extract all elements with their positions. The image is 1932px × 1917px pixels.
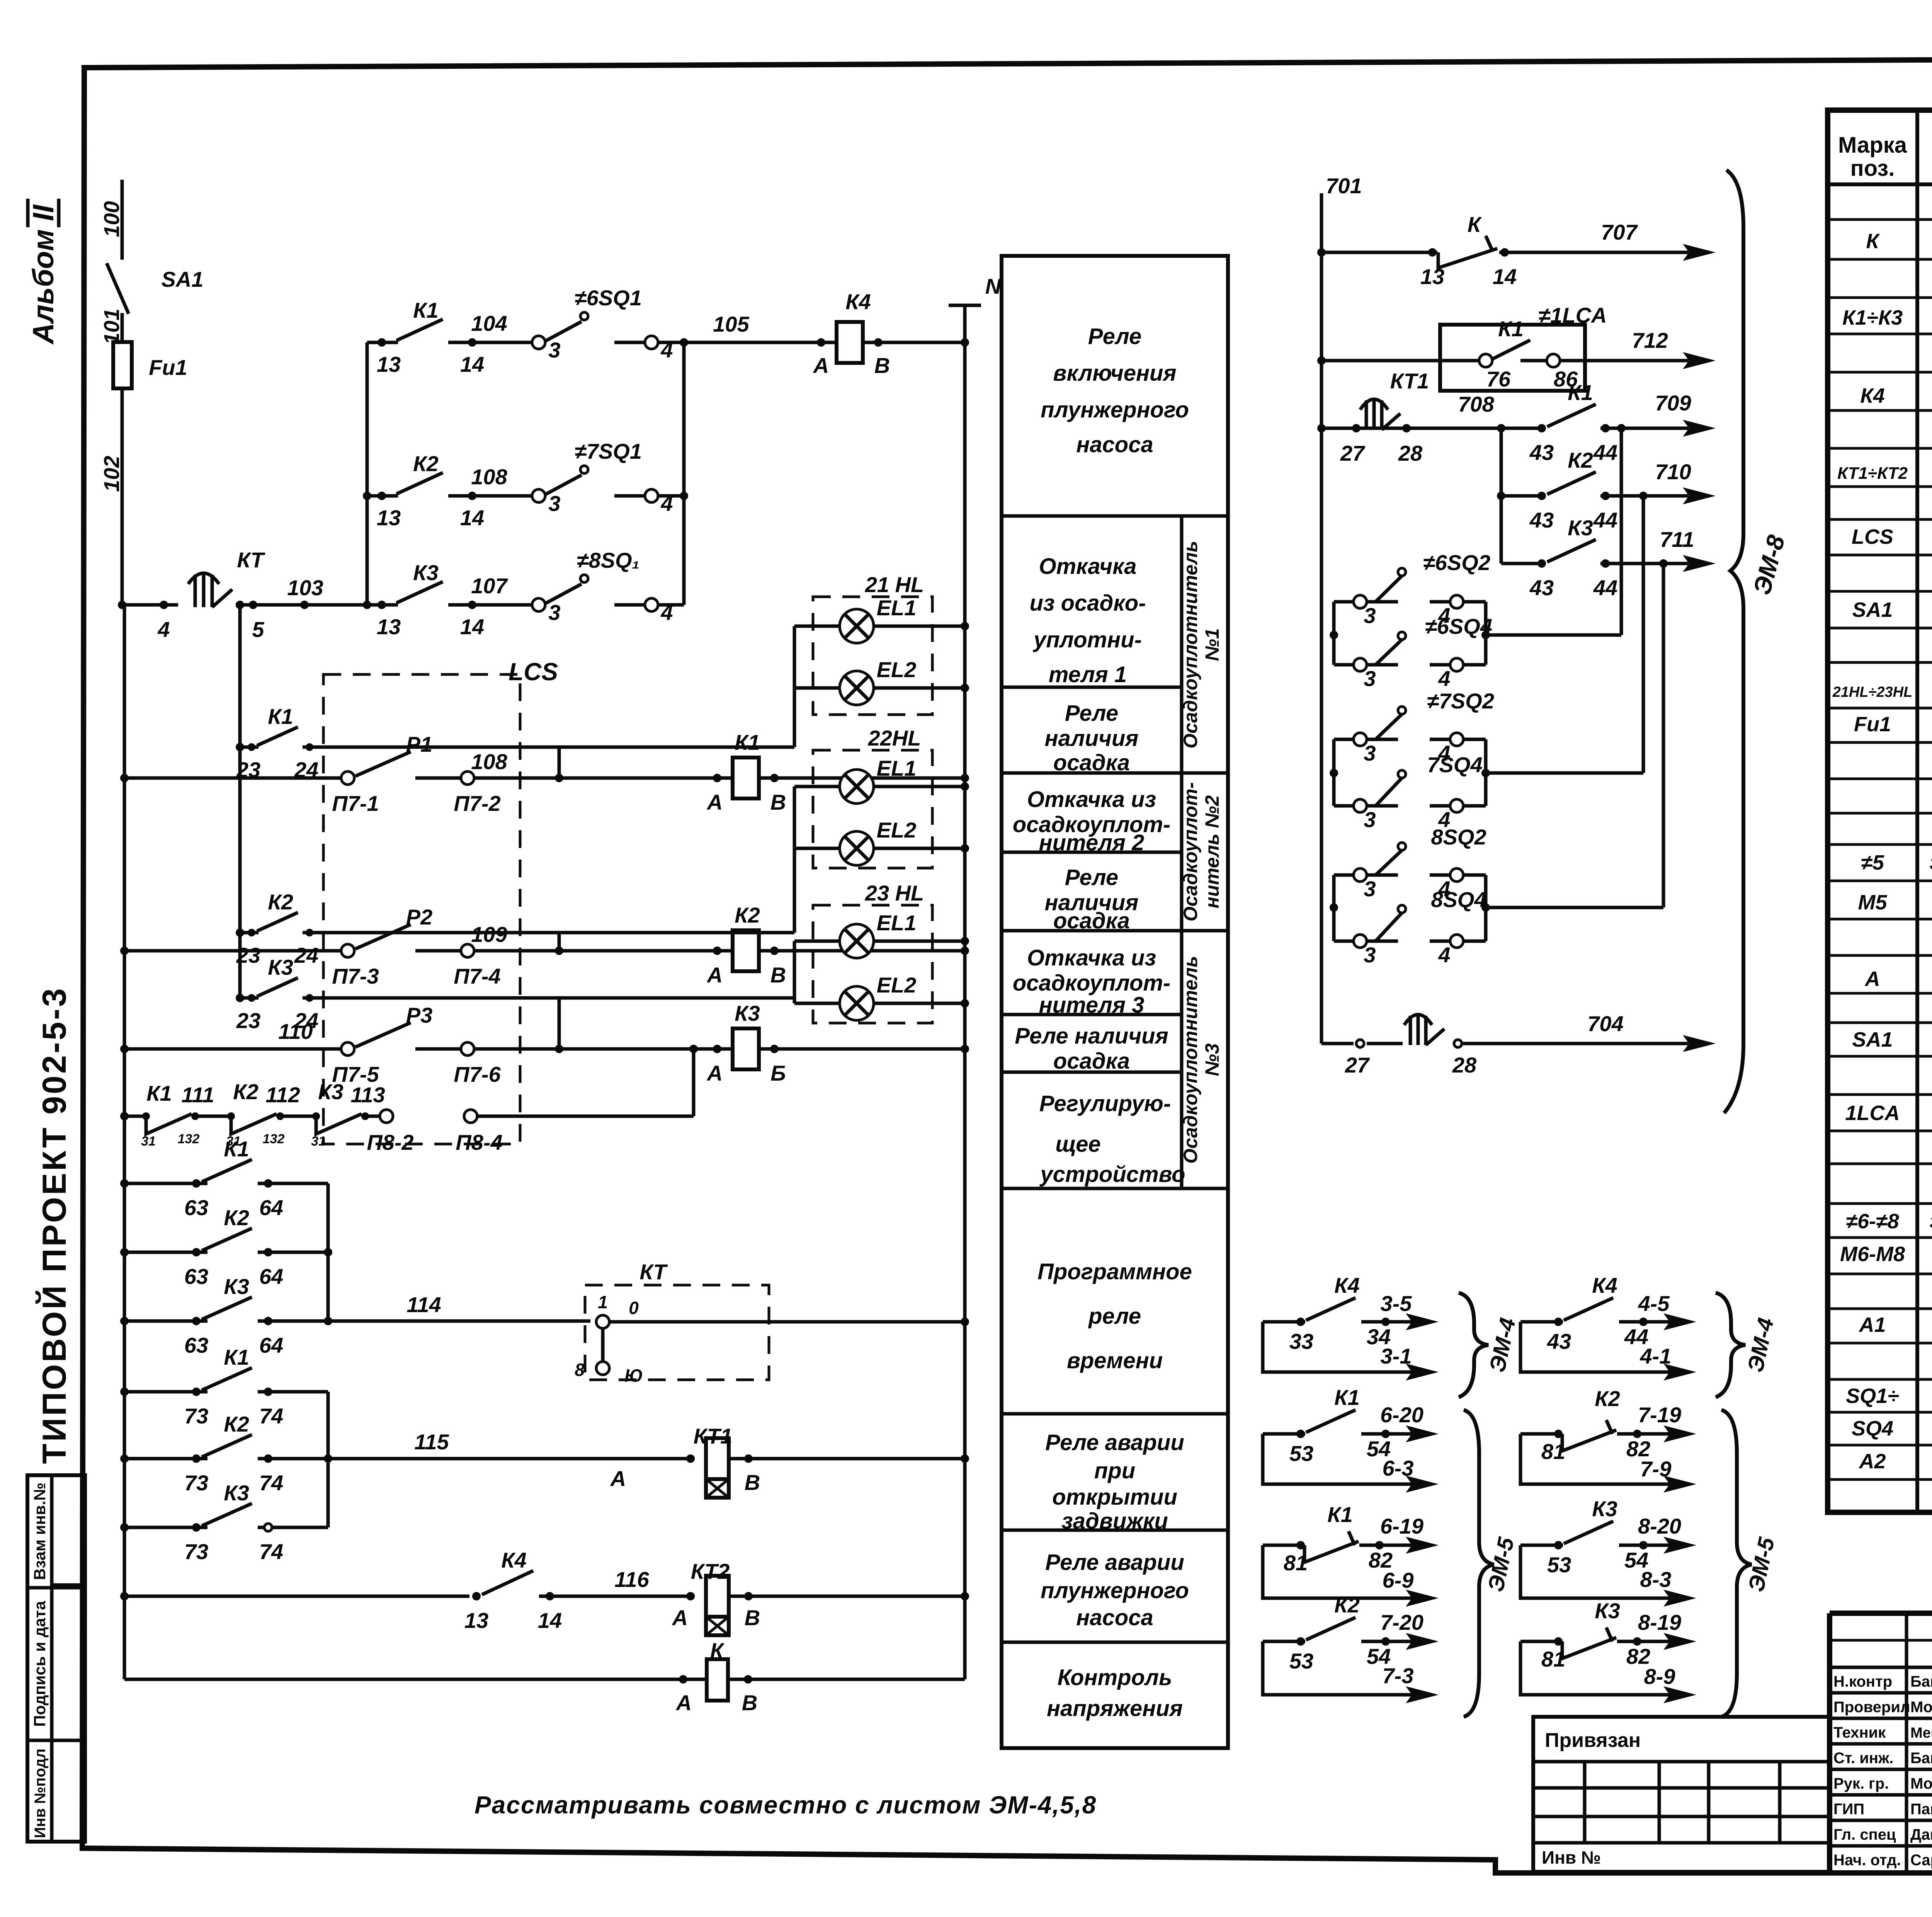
svg-text:701: 701 [1326, 174, 1362, 198]
wire bus 701 [1320, 193, 1323, 1044]
contact K1 23-24 [236, 704, 794, 782]
svg-text:8SQ2: 8SQ2 [1431, 825, 1486, 849]
svg-text:Саркисьян: Саркисьян [1910, 1852, 1932, 1869]
svg-text:14: 14 [460, 615, 484, 639]
svg-text:К2: К2 [1334, 1593, 1360, 1617]
contact P3 (П7-5 / П7-6) [341, 1042, 354, 1056]
wire 110 [124, 1047, 341, 1051]
svg-text:открытии: открытии [1052, 1485, 1177, 1510]
svg-text:при: при [1094, 1458, 1135, 1483]
svg-text:63: 63 [184, 1195, 208, 1220]
arrow 710 [1683, 487, 1716, 504]
svg-text:7-3: 7-3 [1383, 1663, 1414, 1688]
svg-text:8SQ4: 8SQ4 [1431, 887, 1486, 912]
svg-text:110: 110 [278, 1019, 313, 1044]
wire bus B2 [238, 605, 242, 998]
svg-text:≠7SQ2: ≠7SQ2 [1427, 689, 1494, 713]
svg-text:Откачка: Откачка [1039, 554, 1136, 579]
svg-text:114: 114 [406, 1292, 441, 1317]
svg-text:КТ2: КТ2 [691, 1559, 730, 1583]
svg-text:112: 112 [265, 1083, 300, 1107]
wire lamp feed [697, 931, 794, 935]
table mark column entries [1832, 230, 1913, 1473]
contact K3 13-14 [396, 582, 443, 603]
svg-text:Мосеенко: Мосеенко [1910, 1775, 1932, 1792]
svg-text:7-19: 7-19 [1638, 1403, 1681, 1427]
lamp EL1 [794, 940, 840, 943]
svg-text:П7-6: П7-6 [454, 1062, 501, 1086]
svg-text:В: В [770, 790, 786, 814]
wire 116 [124, 1595, 469, 1598]
cell: Реле аварии плунжерного насоса [1041, 1550, 1189, 1630]
svg-text:В: В [770, 963, 786, 987]
contact K1 63-64 [120, 1137, 328, 1220]
wire 100 [121, 180, 124, 260]
svg-text:Реле наличия: Реле наличия [1015, 1023, 1168, 1049]
cell: Откачка из осадкоуплотнителя 2 [1013, 787, 1171, 855]
svg-text:3: 3 [1364, 603, 1376, 628]
svg-text:43: 43 [1529, 440, 1554, 465]
svg-text:А: А [1864, 967, 1880, 991]
contact P2 (П7-3 / П7-4) [341, 944, 354, 957]
svg-text:711: 711 [1660, 527, 1694, 552]
rung 707 : contact K 13-14 [1321, 251, 1437, 254]
svg-text:31: 31 [311, 1134, 326, 1149]
svg-text:SA1: SA1 [1852, 598, 1893, 621]
arrow 712 [1683, 352, 1716, 369]
svg-text:704: 704 [1587, 1011, 1623, 1036]
contact K2 63-64 [120, 1205, 332, 1289]
contact K3 23-24 [236, 955, 794, 1033]
brace ЭМ-5 (right) [1721, 1410, 1752, 1717]
svg-text:А: А [813, 353, 829, 378]
table headers [1838, 133, 1932, 181]
svg-text:А: А [672, 1605, 688, 1630]
svg-text:К2: К2 [224, 1205, 249, 1230]
svg-text:107: 107 [471, 574, 508, 598]
svg-text:К1: К1 [268, 704, 293, 729]
svg-text:4-5: 4-5 [1638, 1291, 1670, 1316]
svg-text:115: 115 [414, 1430, 449, 1454]
project label: ТИПОВОЙ ПРОЕКТ 902-5-3 (rotated) [36, 986, 73, 1464]
svg-text:707: 707 [1601, 220, 1638, 244]
svg-text:7-20: 7-20 [1380, 1610, 1423, 1634]
svg-text:101: 101 [99, 308, 124, 344]
svg-text:23: 23 [236, 943, 260, 967]
row K2 43-44 (wire 710) [1501, 494, 1540, 498]
arrow 709 [1683, 420, 1716, 437]
svg-text:44: 44 [1593, 508, 1617, 532]
lamp EL1 [794, 625, 840, 628]
svg-text:43: 43 [1547, 1329, 1571, 1353]
timed contact KT [188, 573, 232, 607]
svg-text:Программное: Программное [1037, 1259, 1192, 1284]
svg-text:116: 116 [614, 1567, 649, 1592]
svg-text:реле: реле [1088, 1304, 1141, 1329]
contact group K1 81-82 breaker (to ЭМ-5) [1263, 1502, 1439, 1607]
svg-text:27: 27 [1340, 441, 1366, 465]
svg-text:14: 14 [1493, 264, 1517, 289]
svg-text:≠6SQ1: ≠6SQ1 [575, 286, 642, 310]
cell: Откачка из осадкоуплотнителя 1 [1029, 554, 1146, 687]
svg-text:Привязан: Привязан [1545, 1729, 1641, 1752]
svg-text:К1: К1 [1334, 1385, 1360, 1410]
svg-text:8-20: 8-20 [1638, 1514, 1681, 1538]
wire 115 to KT1 [328, 1457, 695, 1461]
svg-text:43: 43 [1529, 575, 1554, 600]
svg-text:708: 708 [1458, 392, 1494, 416]
wire drop from K1 stub to rung 108 [558, 747, 561, 778]
bracket ЭМ-8 [1724, 170, 1743, 1113]
svg-text:64: 64 [259, 1195, 283, 1220]
wire 114 [328, 1319, 590, 1323]
svg-text:31: 31 [141, 1134, 156, 1149]
svg-text:Р3: Р3 [406, 1003, 433, 1027]
svg-text:LCS: LCS [1852, 525, 1893, 548]
svg-text:К1: К1 [224, 1137, 249, 1161]
svg-text:44: 44 [1593, 440, 1617, 465]
contact group K3 53-54 (to ЭМ-5) [1520, 1496, 1696, 1607]
wire riser to rung 110 [692, 1049, 696, 1116]
svg-text:103: 103 [287, 575, 323, 600]
svg-text:Гл. спец: Гл. спец [1833, 1826, 1896, 1843]
svg-text:А: А [706, 963, 723, 987]
svg-text:Павлова: Павлова [1910, 1801, 1932, 1818]
svg-text:В: В [742, 1691, 757, 1715]
svg-text:Реле: Реле [1065, 865, 1118, 890]
svg-text:22HL: 22HL [868, 726, 921, 750]
row K3 43-44 (wire 711) [1501, 562, 1540, 565]
wire risers from SQ4 interconnects [1620, 428, 1623, 635]
program timer KT dashed box [585, 1285, 769, 1380]
svg-text:76: 76 [1486, 367, 1511, 391]
svg-text:Р2: Р2 [406, 905, 433, 929]
svg-text:3: 3 [1364, 741, 1376, 765]
lamp EL1 [794, 785, 840, 788]
rung 712 : contact K1 76-86 [1321, 359, 1479, 363]
svg-text:Откачка из: Откачка из [1027, 945, 1156, 970]
contact K2 31-32 [195, 1112, 284, 1149]
approval rows [1833, 1673, 1932, 1869]
level switch box ≠1LCA [1440, 325, 1585, 391]
svg-text:Марка: Марка [1838, 133, 1907, 158]
svg-text:53: 53 [1547, 1553, 1571, 1577]
side label: Осадкоуплотнитель №2 [1180, 782, 1223, 922]
limit switch contact ≠8SQ1 [532, 598, 545, 611]
svg-text:Альбом II: Альбом II [27, 204, 60, 345]
switch SA1 [107, 263, 129, 314]
svg-text:К3: К3 [318, 1079, 344, 1104]
svg-text:3: 3 [1364, 877, 1376, 901]
wire drop to K2/K3 rows [1500, 428, 1503, 564]
svg-text:К1: К1 [1498, 317, 1524, 341]
svg-text:6-3: 6-3 [1383, 1456, 1414, 1480]
svg-text:14: 14 [460, 506, 484, 530]
svg-text:4: 4 [1438, 943, 1450, 967]
svg-text:К4: К4 [1860, 384, 1884, 407]
svg-text:7-9: 7-9 [1640, 1457, 1672, 1481]
svg-text:3-5: 3-5 [1381, 1291, 1412, 1316]
svg-text:23 HL: 23 HL [865, 881, 924, 905]
svg-text:Элементы управления электродви: Элементы управления электродвигателем М6… [1929, 1212, 1932, 1232]
svg-text:Реле аварии: Реле аварии [1045, 1550, 1184, 1575]
svg-text:включения: включения [1053, 361, 1176, 386]
svg-text:Осадкоуплот-: Осадкоуплот- [1180, 782, 1201, 922]
svg-text:К1: К1 [1568, 380, 1593, 405]
wire 108 [124, 776, 341, 780]
svg-text:≠1LCA: ≠1LCA [1539, 303, 1607, 327]
svg-text:5: 5 [252, 617, 264, 642]
attachment box Привязан [1533, 1717, 1830, 1872]
svg-text:EL2: EL2 [877, 657, 917, 682]
svg-text:712: 712 [1632, 328, 1668, 352]
contact group K2 53-54 (to ЭМ-5) [1263, 1593, 1439, 1703]
svg-text:плунжерного: плунжерного [1041, 397, 1189, 422]
svg-text:4-1: 4-1 [1640, 1344, 1672, 1368]
svg-text:Н.контр: Н.контр [1833, 1673, 1892, 1690]
brace ЭМ-4 (right) [1716, 1293, 1745, 1397]
svg-text:27: 27 [1345, 1053, 1370, 1077]
svg-text:КТ1÷КТ2: КТ1÷КТ2 [1837, 464, 1908, 483]
switch ≠6SQ2 [1398, 568, 1406, 576]
svg-text:А1: А1 [1858, 1313, 1886, 1336]
svg-text:Инв №подл: Инв №подл [32, 1748, 49, 1838]
svg-text:4: 4 [1438, 666, 1450, 691]
svg-text:64: 64 [259, 1264, 283, 1289]
wire bus B3b [327, 1392, 330, 1527]
svg-text:В: В [745, 1605, 760, 1630]
contact group K4 43-44 (to ЭМ-4) [1520, 1273, 1696, 1381]
svg-text:105: 105 [713, 312, 749, 336]
svg-text:осадка: осадка [1053, 908, 1130, 933]
svg-text:63: 63 [184, 1333, 208, 1357]
svg-text:3: 3 [548, 491, 560, 516]
svg-text:Реле: Реле [1088, 324, 1141, 349]
svg-text:6-19: 6-19 [1380, 1514, 1423, 1538]
svg-text:Взам инв.№: Взам инв.№ [31, 1483, 49, 1580]
wire to 709 riser [1486, 633, 1621, 637]
svg-text:43: 43 [1529, 508, 1554, 532]
svg-text:К3: К3 [224, 1274, 249, 1299]
svg-text:ТИПОВОЙ ПРОЕКТ 902-5-3: ТИПОВОЙ ПРОЕКТ 902-5-3 [36, 986, 73, 1464]
brace ЭМ-4 (left) [1459, 1293, 1488, 1397]
svg-text:осадка: осадка [1053, 750, 1130, 775]
svg-text:113: 113 [350, 1083, 385, 1107]
svg-text:14: 14 [538, 1608, 562, 1633]
svg-text:≠5: ≠5 [1861, 851, 1884, 874]
svg-text:6-9: 6-9 [1383, 1568, 1414, 1592]
svg-text:А: А [675, 1691, 692, 1715]
contact P1 (П7-1 / П7-2) [341, 771, 354, 785]
svg-text:709: 709 [1655, 391, 1691, 415]
svg-text:КТ1: КТ1 [694, 1424, 732, 1448]
svg-text:К1÷К3: К1÷К3 [1842, 306, 1903, 329]
svg-text:наличия: наличия [1045, 726, 1139, 751]
fuse Fu1 [113, 342, 132, 388]
wire from KT to N bus [609, 1320, 965, 1324]
svg-text:К3: К3 [224, 1481, 249, 1505]
svg-text:поз.: поз. [1850, 156, 1895, 181]
svg-text:1: 1 [598, 1292, 608, 1312]
wire lamp feed [697, 746, 794, 749]
svg-text:SQ1÷: SQ1÷ [1846, 1384, 1899, 1408]
svg-text:ГИП: ГИП [1833, 1801, 1864, 1818]
svg-text:53: 53 [1289, 1441, 1313, 1466]
svg-text:К4: К4 [845, 289, 871, 314]
wire group frame [1332, 602, 1336, 665]
side label: Осадкоуплотнитель №3 [1180, 956, 1223, 1164]
svg-text:К3: К3 [1568, 516, 1593, 540]
svg-text:14: 14 [460, 352, 484, 376]
svg-text:≠8SQ₁: ≠8SQ₁ [577, 548, 640, 572]
svg-text:8-9: 8-9 [1644, 1664, 1675, 1689]
svg-text:Fu1: Fu1 [1854, 713, 1891, 736]
svg-text:64: 64 [259, 1333, 283, 1357]
svg-text:Р1: Р1 [406, 732, 433, 756]
contact K3 63-64 [120, 1274, 332, 1357]
contact K1 13-14 [367, 341, 398, 344]
svg-text:КТ1: КТ1 [1390, 369, 1429, 393]
svg-text:108: 108 [471, 465, 507, 489]
svg-text:К3: К3 [413, 560, 439, 585]
svg-text:74: 74 [259, 1539, 283, 1564]
svg-text:К2: К2 [224, 1412, 249, 1436]
svg-text:нитель №2: нитель №2 [1201, 795, 1223, 908]
svg-text:3-1: 3-1 [1381, 1344, 1412, 1368]
svg-text:73: 73 [184, 1539, 208, 1564]
cell: Реле наличия осадка [1045, 865, 1139, 933]
svg-text:К3: К3 [735, 1001, 760, 1025]
bus B4 [366, 342, 369, 605]
switch ≠6SQ4 [1398, 632, 1406, 640]
arrow 707 [1683, 244, 1716, 261]
svg-text:EL1: EL1 [877, 756, 917, 780]
wire 101 [121, 313, 124, 342]
svg-text:Подпись и дата: Подпись и дата [31, 1601, 49, 1727]
svg-text:К: К [1866, 230, 1880, 253]
svg-text:SA1: SA1 [162, 267, 204, 291]
wire drop from K3 stub to rung 110 [558, 998, 561, 1049]
lamp EL2 [794, 847, 840, 850]
sidebar text: Инв № подл [32, 1748, 49, 1838]
svg-text:3: 3 [1364, 807, 1376, 832]
svg-text:6-20: 6-20 [1380, 1403, 1423, 1427]
cell: Программное реле времени [1037, 1259, 1192, 1373]
svg-text:81: 81 [1284, 1551, 1308, 1575]
svg-text:28: 28 [1452, 1053, 1477, 1077]
svg-text:задвижки: задвижки [1061, 1508, 1168, 1534]
svg-text:А: А [706, 1061, 723, 1085]
svg-text:Ст. инж.: Ст. инж. [1833, 1750, 1893, 1767]
svg-text:44: 44 [1593, 575, 1617, 600]
wire [124, 1115, 146, 1118]
svg-text:В: В [874, 353, 890, 378]
svg-text:К1: К1 [413, 298, 439, 322]
svg-text:К4: К4 [501, 1548, 527, 1572]
svg-text:Контроль: Контроль [1058, 1665, 1172, 1690]
svg-text:К3: К3 [268, 955, 293, 979]
rung K3 (wire 107) [367, 603, 398, 607]
timed contact [1404, 1015, 1444, 1045]
svg-text:К1: К1 [735, 730, 760, 754]
svg-text:3: 3 [1364, 666, 1376, 691]
svg-text:осадка: осадка [1053, 1049, 1130, 1074]
svg-text:23: 23 [236, 1008, 260, 1033]
svg-text:SA1: SA1 [1852, 1028, 1893, 1051]
contact K1 73-74 [120, 1345, 328, 1428]
svg-text:К2: К2 [1595, 1386, 1620, 1411]
cell: Регулирующее устройство [1039, 1091, 1185, 1187]
cell: Реле аварии при открытии задвижки [1045, 1430, 1184, 1534]
svg-text:28: 28 [1398, 441, 1423, 465]
svg-text:≠6-≠8: ≠6-≠8 [1846, 1210, 1899, 1233]
svg-text:КТ: КТ [639, 1260, 668, 1284]
svg-text:8-3: 8-3 [1640, 1567, 1672, 1592]
svg-text:из осадко-: из осадко- [1029, 591, 1146, 616]
svg-text:1LCA: 1LCA [1845, 1102, 1900, 1125]
sidebar text: Взам инв № [31, 1483, 49, 1580]
svg-text:К2: К2 [413, 451, 439, 476]
svg-text:LCS: LCS [509, 658, 558, 686]
svg-text:К2: К2 [735, 903, 760, 927]
wire 109 [124, 949, 341, 953]
svg-text:щее: щее [1055, 1132, 1100, 1157]
svg-text:Fu1: Fu1 [149, 355, 187, 380]
svg-text:N: N [985, 274, 1002, 298]
arrow 704 [1683, 1035, 1716, 1052]
svg-text:132: 132 [263, 1132, 285, 1146]
wire to junction [658, 494, 684, 498]
wire bus B3 [327, 1183, 330, 1321]
contact П8-4 [464, 1110, 477, 1123]
contact K4 13-14 [472, 1592, 481, 1600]
svg-text:К: К [1468, 212, 1482, 237]
svg-text:109: 109 [471, 922, 507, 947]
svg-text:SQ4: SQ4 [1852, 1417, 1893, 1440]
svg-text:К3: К3 [1595, 1599, 1620, 1623]
svg-text:Реле: Реле [1065, 701, 1118, 726]
svg-text:≠7SQ1: ≠7SQ1 [575, 439, 642, 463]
svg-text:К4: К4 [1592, 1273, 1617, 1297]
lamp EL2 [794, 686, 840, 690]
contact П8-2 [380, 1110, 393, 1123]
cell: Реле наличия осадка [1045, 701, 1139, 775]
wire drop from K2 stub to rung 109 [558, 933, 561, 951]
svg-text:13: 13 [377, 615, 401, 639]
svg-text:Регулирую-: Регулирую- [1039, 1091, 1171, 1116]
svg-text:Осадкоуплотнитель: Осадкоуплотнитель [1180, 956, 1201, 1164]
svg-text:К1: К1 [146, 1081, 172, 1105]
cell: Откачка из осадкоуплотнителя 3 [1013, 945, 1171, 1018]
contact KT 1-0 [596, 1315, 609, 1328]
svg-text:4: 4 [157, 617, 170, 642]
svg-text:EL1: EL1 [877, 596, 917, 620]
svg-text:24: 24 [294, 943, 318, 967]
svg-text:100: 100 [99, 201, 124, 237]
svg-text:П8-2: П8-2 [367, 1130, 413, 1154]
svg-text:№3: №3 [1201, 1043, 1223, 1076]
svg-text:710: 710 [1655, 460, 1691, 484]
node 100 label [99, 201, 124, 237]
svg-text:М5: М5 [1858, 891, 1887, 914]
svg-text:21 HL: 21 HL [865, 572, 924, 597]
cell: Реле наличия осадка [1015, 1023, 1168, 1074]
svg-text:К2: К2 [1568, 448, 1593, 472]
contact group K2 81-82 breaker (to ЭМ-5) [1520, 1386, 1696, 1493]
svg-text:А: А [706, 790, 723, 814]
svg-text:Проверил: Проверил [1833, 1699, 1910, 1716]
svg-text:81: 81 [1541, 1647, 1565, 1671]
